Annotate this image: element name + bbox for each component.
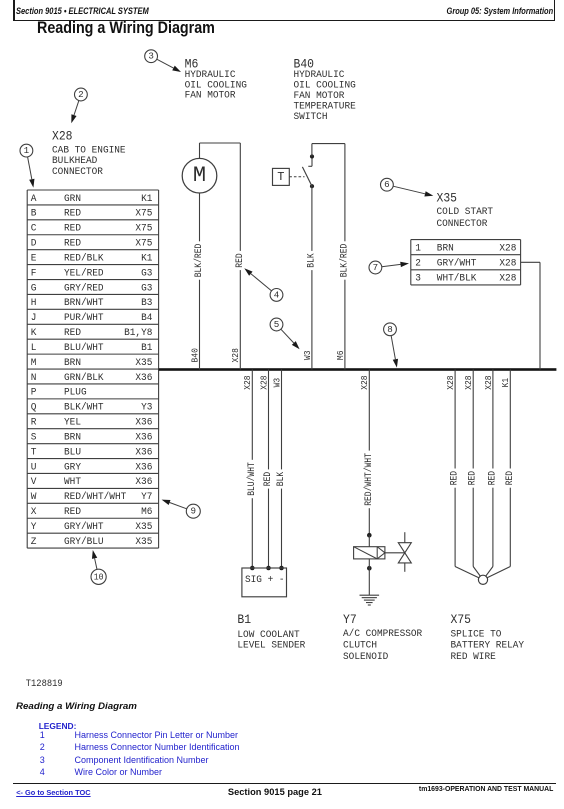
svg-text:X28: X28 <box>499 274 516 285</box>
svg-text:M: M <box>193 163 206 188</box>
svg-text:M6: M6 <box>335 350 346 360</box>
svg-text:9: 9 <box>191 506 197 517</box>
svg-text:RED: RED <box>235 253 246 267</box>
svg-text:RED: RED <box>64 507 81 518</box>
svg-text:RED: RED <box>263 472 274 486</box>
svg-text:D: D <box>31 239 37 250</box>
svg-text:BULKHEAD: BULKHEAD <box>52 156 97 167</box>
svg-text:X28: X28 <box>258 375 269 390</box>
svg-text:GRY/WHT: GRY/WHT <box>437 258 477 270</box>
svg-text:X35: X35 <box>437 190 458 205</box>
svg-text:G3: G3 <box>141 283 152 294</box>
svg-text:X75: X75 <box>135 224 152 235</box>
svg-text:G: G <box>31 283 37 294</box>
svg-text:X75: X75 <box>135 209 152 220</box>
svg-text:R: R <box>31 418 37 429</box>
svg-text:OIL COOLING: OIL COOLING <box>294 81 356 92</box>
svg-text:B3: B3 <box>141 298 152 309</box>
svg-text:X36: X36 <box>135 447 152 458</box>
svg-text:PLUG: PLUG <box>64 388 87 399</box>
svg-text:B1: B1 <box>237 612 251 627</box>
svg-text:K1: K1 <box>500 377 511 387</box>
svg-text:S: S <box>31 432 37 443</box>
svg-text:GRY/WHT: GRY/WHT <box>64 521 104 533</box>
svg-text:BRN: BRN <box>437 243 454 254</box>
svg-text:GRY: GRY <box>64 462 81 473</box>
svg-text:X28: X28 <box>359 375 370 390</box>
svg-text:GRN/BLK: GRN/BLK <box>64 372 104 384</box>
svg-text:K1: K1 <box>141 253 152 264</box>
svg-text:CAB TO ENGINE: CAB TO ENGINE <box>52 145 126 156</box>
svg-text:GRY/BLU: GRY/BLU <box>64 536 104 548</box>
svg-text:BRN: BRN <box>64 432 81 443</box>
svg-text:GRN: GRN <box>64 194 81 205</box>
svg-text:CONNECTOR: CONNECTOR <box>52 167 103 178</box>
svg-text:YEL/RED: YEL/RED <box>64 267 104 279</box>
svg-text:RED: RED <box>64 239 81 250</box>
svg-text:X28: X28 <box>483 375 494 390</box>
svg-text:BLK: BLK <box>276 472 287 486</box>
svg-text:SIG + -: SIG + - <box>245 575 285 586</box>
svg-text:Y3: Y3 <box>141 403 152 414</box>
svg-text:J: J <box>31 313 37 324</box>
svg-text:RED: RED <box>64 328 81 339</box>
svg-text:L: L <box>31 343 37 354</box>
svg-text:V: V <box>31 477 37 488</box>
svg-text:BLU/WHT: BLU/WHT <box>246 462 258 496</box>
svg-text:8: 8 <box>387 324 393 335</box>
svg-text:B40: B40 <box>294 56 315 71</box>
svg-text:B4: B4 <box>141 313 152 324</box>
svg-text:RED: RED <box>64 209 81 220</box>
svg-text:BLK: BLK <box>306 253 317 267</box>
svg-text:BATTERY RELAY: BATTERY RELAY <box>451 641 525 652</box>
svg-text:5: 5 <box>274 319 280 330</box>
svg-text:B1,Y8: B1,Y8 <box>124 328 152 339</box>
svg-text:T128819: T128819 <box>26 678 63 690</box>
svg-text:RED: RED <box>487 471 498 485</box>
svg-text:SPLICE TO: SPLICE TO <box>451 629 502 640</box>
svg-text:FAN MOTOR: FAN MOTOR <box>294 91 345 102</box>
svg-text:LOW COOLANT: LOW COOLANT <box>237 630 299 641</box>
svg-text:X36: X36 <box>135 418 152 429</box>
svg-text:X: X <box>31 507 37 518</box>
svg-text:K: K <box>31 328 37 339</box>
svg-text:G3: G3 <box>141 268 152 279</box>
svg-text:HYDRAULIC: HYDRAULIC <box>294 70 345 81</box>
svg-text:N: N <box>31 373 37 384</box>
svg-text:COLD START: COLD START <box>437 207 494 218</box>
svg-text:Z: Z <box>31 537 37 548</box>
svg-text:BRN/WHT: BRN/WHT <box>64 297 104 309</box>
svg-text:2: 2 <box>78 89 84 100</box>
svg-text:X75: X75 <box>451 612 472 627</box>
svg-text:Y7: Y7 <box>141 492 152 503</box>
svg-text:SOLENOID: SOLENOID <box>343 652 388 663</box>
svg-text:E: E <box>31 253 37 264</box>
svg-text:10: 10 <box>94 571 104 582</box>
svg-text:1: 1 <box>415 243 421 254</box>
svg-text:RED/WHT/WHT: RED/WHT/WHT <box>363 453 375 506</box>
svg-text:X28: X28 <box>463 375 474 390</box>
svg-text:M: M <box>31 358 37 369</box>
svg-text:X35: X35 <box>135 358 152 369</box>
svg-text:TEMPERATURE: TEMPERATURE <box>294 101 356 112</box>
svg-text:BLU: BLU <box>64 447 81 458</box>
svg-text:WHT/BLK: WHT/BLK <box>437 273 477 285</box>
svg-text:SWITCH: SWITCH <box>294 112 328 123</box>
svg-text:CLUTCH: CLUTCH <box>343 640 377 651</box>
svg-text:FAN MOTOR: FAN MOTOR <box>185 91 236 102</box>
svg-text:BLK/RED: BLK/RED <box>338 244 350 278</box>
svg-text:A/C COMPRESSOR: A/C COMPRESSOR <box>343 628 422 640</box>
svg-text:B40: B40 <box>189 348 200 363</box>
svg-text:2: 2 <box>415 259 421 270</box>
svg-text:M6: M6 <box>141 507 152 518</box>
svg-text:BRN: BRN <box>64 358 81 369</box>
svg-text:X28: X28 <box>230 348 241 363</box>
svg-text:RED: RED <box>64 224 81 235</box>
svg-text:X28: X28 <box>52 129 73 144</box>
svg-text:X36: X36 <box>135 432 152 443</box>
svg-text:7: 7 <box>373 262 379 273</box>
svg-text:B: B <box>31 209 37 220</box>
svg-text:BLU/WHT: BLU/WHT <box>64 342 104 354</box>
svg-text:WHT: WHT <box>64 477 81 488</box>
svg-text:1: 1 <box>24 145 30 156</box>
svg-text:F: F <box>31 268 37 279</box>
svg-text:W3: W3 <box>271 377 282 387</box>
svg-text:RED: RED <box>450 471 461 485</box>
svg-text:W: W <box>31 492 37 503</box>
svg-text:X35: X35 <box>135 537 152 548</box>
svg-text:X28: X28 <box>445 375 456 390</box>
svg-text:X28: X28 <box>499 259 516 270</box>
svg-text:6: 6 <box>384 179 390 190</box>
svg-text:K1: K1 <box>141 194 152 205</box>
svg-text:X75: X75 <box>135 239 152 250</box>
svg-text:X28: X28 <box>499 243 516 254</box>
svg-text:C: C <box>31 224 37 235</box>
svg-text:Y: Y <box>31 522 37 533</box>
svg-text:RED: RED <box>468 471 479 485</box>
svg-text:4: 4 <box>274 289 280 300</box>
svg-text:W3: W3 <box>302 350 313 360</box>
svg-text:U: U <box>31 462 37 473</box>
svg-text:3: 3 <box>415 274 421 285</box>
svg-text:Y7: Y7 <box>343 612 357 627</box>
svg-text:RED/WHT/WHT: RED/WHT/WHT <box>64 491 126 503</box>
svg-text:RED/BLK: RED/BLK <box>64 252 104 264</box>
svg-text:B1: B1 <box>141 343 152 354</box>
svg-text:PUR/WHT: PUR/WHT <box>64 312 104 324</box>
svg-text:RED: RED <box>505 471 516 485</box>
svg-text:3: 3 <box>148 51 154 62</box>
svg-text:P: P <box>31 388 37 399</box>
svg-text:LEVEL SENDER: LEVEL SENDER <box>237 641 305 652</box>
svg-text:A: A <box>31 194 37 205</box>
svg-text:X35: X35 <box>135 522 152 533</box>
svg-text:BLK/RED: BLK/RED <box>193 244 205 278</box>
svg-text:RED WIRE: RED WIRE <box>451 652 496 663</box>
svg-text:T: T <box>277 170 284 184</box>
svg-text:X36: X36 <box>135 477 152 488</box>
svg-text:YEL: YEL <box>64 418 81 429</box>
svg-text:H: H <box>31 298 37 309</box>
svg-text:CONNECTOR: CONNECTOR <box>437 219 488 230</box>
svg-text:X36: X36 <box>135 373 152 384</box>
svg-text:X36: X36 <box>135 462 152 473</box>
svg-text:GRY/RED: GRY/RED <box>64 282 104 294</box>
svg-text:T: T <box>31 447 37 458</box>
svg-text:X28: X28 <box>242 375 253 390</box>
svg-text:Q: Q <box>31 403 37 414</box>
svg-text:BLK/WHT: BLK/WHT <box>64 402 104 414</box>
